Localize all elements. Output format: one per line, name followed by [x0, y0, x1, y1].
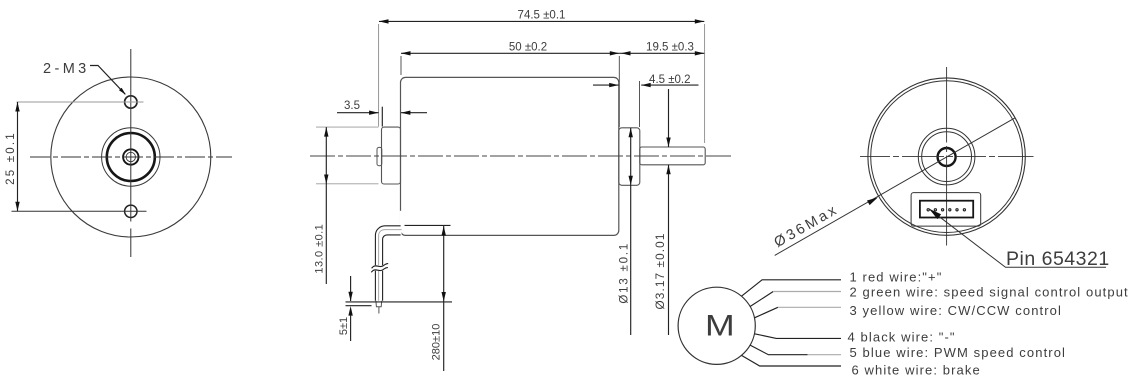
svg-text:Ø13 ±0.1: Ø13 ±0.1: [618, 242, 630, 304]
output shaft: [640, 147, 705, 165]
rear outer circle: [868, 78, 1025, 235]
svg-text:2-M3: 2-M3: [43, 61, 90, 77]
hub outer thin circle: [102, 128, 160, 186]
extension line 74.5 left: [378, 24, 380, 127]
hub bold circle: [107, 133, 155, 181]
dimension 3.5 left segment: [337, 112, 379, 114]
pin leader line: [929, 209, 1106, 267]
arrow down 25dim: [15, 202, 19, 212]
bare wire tip: [378, 307, 380, 314]
rear inner ring circle: [871, 81, 1023, 233]
wire leader 1: [742, 280, 842, 296]
dimension 13.0 extension top (gray): [316, 126, 379, 128]
dimension 13.0 extension bottom (gray): [316, 183, 379, 185]
arrow down 280: [442, 292, 446, 302]
mounting hole bottom M3: [125, 205, 137, 217]
dimension Ø13 line: [630, 128, 632, 335]
dimension Ø3.17 stem bottom: [668, 165, 670, 335]
motor body: [401, 77, 619, 235]
wire leader 5 horizontal (gray): [808, 354, 842, 356]
arrow 3.5 pointing left: [401, 111, 411, 115]
wire leader 4: [755, 334, 842, 339]
connector pins: [927, 209, 929, 211]
connector inner shell: [920, 201, 973, 218]
svg-text:25 ±0.1: 25 ±0.1: [5, 131, 17, 185]
pin leader arrowhead: [929, 209, 941, 219]
svg-text:5 blue wire: PWM speed control: 5 blue wire: PWM speed control: [850, 345, 1067, 360]
svg-text:3 yellow wire: CW/CCW control: 3 yellow wire: CW/CCW control: [850, 303, 1062, 318]
stripped wire end: [376, 301, 382, 307]
front boss: [619, 128, 640, 186]
extension line 4.5 right: [639, 81, 641, 127]
extension line 5±1 upper: [346, 301, 453, 303]
arrow right 74.5: [695, 19, 705, 23]
dimension 74.5 line: [379, 20, 704, 22]
arrow down Ø13: [629, 176, 633, 186]
arrow left 74.5: [379, 19, 389, 23]
extension line top hole (gray): [17, 101, 144, 103]
arrow 4.5 pointing left: [641, 83, 651, 87]
svg-text:5±1: 5±1: [338, 317, 350, 335]
rear hub inner circle: [922, 132, 972, 182]
dimension 4.5 left segment: [593, 84, 619, 86]
svg-text:Pin 654321: Pin 654321: [1006, 248, 1110, 270]
leader 2-M3: [90, 66, 125, 95]
vertical centerline left view: [130, 49, 132, 257]
svg-text:M: M: [705, 310, 735, 342]
body edge gap at wire exit: [400, 211, 402, 235]
dimension 5±1 lower arrow: [348, 306, 352, 316]
lead wire outer line: [375, 226, 400, 301]
arrow up Ø3.17: [666, 165, 670, 175]
arrow 3.5 pointing right: [369, 111, 379, 115]
arrow left 50: [401, 51, 411, 55]
extension line 50 left: [400, 56, 402, 75]
arrow up 280: [442, 226, 446, 236]
mounting hole top M3: [125, 96, 137, 108]
wire break mask: [371, 265, 388, 271]
dimension 19.5 line: [619, 52, 704, 54]
svg-text:50 ±0.2: 50 ±0.2: [509, 41, 547, 53]
motor front outer circle: [51, 77, 211, 237]
rear horizontal centerline: [860, 156, 1034, 158]
svg-text:2 green wire: speed signal con: 2 green wire: speed signal control outpu…: [850, 285, 1129, 300]
svg-text:6 white wire: brake: 6 white wire: brake: [852, 362, 981, 377]
wire leader 3 diagonal: [755, 307, 778, 318]
extension line 50/19.5 shared: [618, 56, 620, 127]
svg-text:3.5: 3.5: [344, 100, 360, 112]
rear hub circle: [918, 128, 975, 185]
arrow left 19.5: [621, 51, 631, 55]
svg-text:280±10: 280±10: [431, 324, 443, 361]
rear vertical centerline: [946, 67, 948, 246]
arrow up Ø13: [629, 128, 633, 138]
rear bushing: [382, 127, 401, 184]
connector housing: [911, 193, 981, 227]
svg-text:Ø3.17 ±0.01: Ø3.17 ±0.01: [653, 233, 667, 310]
arrow right 19.5: [695, 51, 705, 55]
middle horizontal centerline: [310, 155, 734, 157]
dimension 3.5 right segment: [401, 112, 427, 114]
extension line 5±1 lower: [346, 305, 372, 307]
wire leader 6: [742, 355, 842, 366]
motor symbol circle: [678, 287, 755, 364]
wire leader 5 diagonal: [750, 345, 807, 355]
wire leader 2 diagonal: [750, 292, 773, 307]
rear shaft stub: [377, 147, 382, 165]
dimension 13.0 line: [325, 127, 327, 284]
svg-text:13.0 ±0.1: 13.0 ±0.1: [314, 224, 326, 274]
svg-text:4.5 ±0.2: 4.5 ±0.2: [649, 74, 690, 86]
dimension 280 line: [443, 226, 445, 371]
shaft bold circle: [123, 149, 138, 164]
extension tick 3.5: [381, 107, 383, 127]
extension line 280 top: [405, 224, 451, 226]
dimension Ø3.17 stem top: [668, 89, 670, 147]
arrow 4.5 pointing right: [609, 83, 619, 87]
rear shaft circle: [938, 148, 956, 166]
lead wire inner line: [383, 235, 401, 301]
horizontal centerline left view: [30, 156, 232, 158]
svg-text:74.5 ±0.1: 74.5 ±0.1: [518, 9, 566, 21]
svg-text:Ø36Max: Ø36Max: [772, 201, 842, 250]
leader arrowhead 2-M3: [119, 88, 126, 95]
dimension 50 line: [401, 52, 619, 54]
shaft inner circle: [126, 152, 135, 161]
svg-text:4 black wire: "-": 4 black wire: "-": [848, 330, 956, 345]
wire break wave 1: [372, 264, 389, 269]
wire leader 2 horizontal (gray): [773, 291, 841, 293]
arrow up 25dim: [15, 102, 19, 112]
arrow right 50: [610, 51, 620, 55]
dimension 5±1 upper arrow: [350, 276, 352, 301]
arrow down Ø3.17: [666, 138, 670, 148]
lead wire middle line (gray): [379, 230, 402, 301]
extension line 74.5 right: [704, 24, 706, 143]
dimension 4.5 right segment: [641, 84, 698, 86]
svg-text:1 red wire:"+": 1 red wire:"+": [850, 270, 943, 285]
wire break wave 2: [371, 268, 388, 273]
arrowhead Ø36Max: [867, 197, 878, 205]
arrow down 13.0: [324, 175, 328, 185]
svg-text:19.5 ±0.3: 19.5 ±0.3: [646, 41, 694, 53]
extension line bottom hole: [12, 210, 147, 212]
arrow up 13.0: [324, 127, 328, 137]
wire leader 3 horizontal (gray): [778, 306, 841, 308]
diameter leader Ø36Max: [775, 118, 1016, 256]
dimension 25 ±0.1 line: [17, 102, 19, 211]
